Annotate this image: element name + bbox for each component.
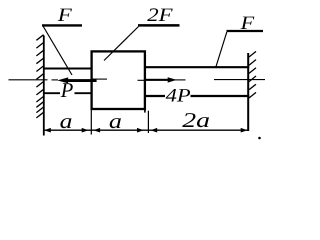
left wall hatching [36,35,43,118]
svg-text:a: a [60,109,73,133]
centerline axis dashes [9,79,266,80]
leader line of F (right) [216,32,227,68]
svg-text:2F: 2F [147,5,173,26]
left bar (area F) bottom edge [43,92,92,94]
dimension arrowheads [44,128,247,133]
force P arrow [57,77,96,83]
force 4P arrow [146,77,177,82]
stray ink dot [258,137,261,140]
svg-text:4P: 4P [166,86,191,107]
middle block (area 2F) [92,51,145,109]
left bar (area F) top edge [43,68,92,70]
underline of 2F [138,24,180,27]
right bar (area F) top edge [145,66,249,68]
svg-text:2a: 2a [182,108,210,132]
svg-text:a: a [109,109,122,133]
dimension line [44,129,248,131]
left fixed wall line [43,36,45,136]
leader line of 2F [104,27,139,61]
leader line of F (left) [43,27,72,76]
right block edge overshoot [144,109,146,113]
right wall hatching [249,51,256,98]
right bar (area F) bottom edge [145,95,249,97]
underline of F (left) [42,24,82,26]
underline of F (right) [227,30,264,32]
svg-text:P: P [60,78,74,102]
dimension extension line below block left edge [90,109,92,135]
svg-text:F: F [57,5,73,26]
right fixed wall line [247,53,249,131]
dimension extension line right of block [147,111,149,133]
